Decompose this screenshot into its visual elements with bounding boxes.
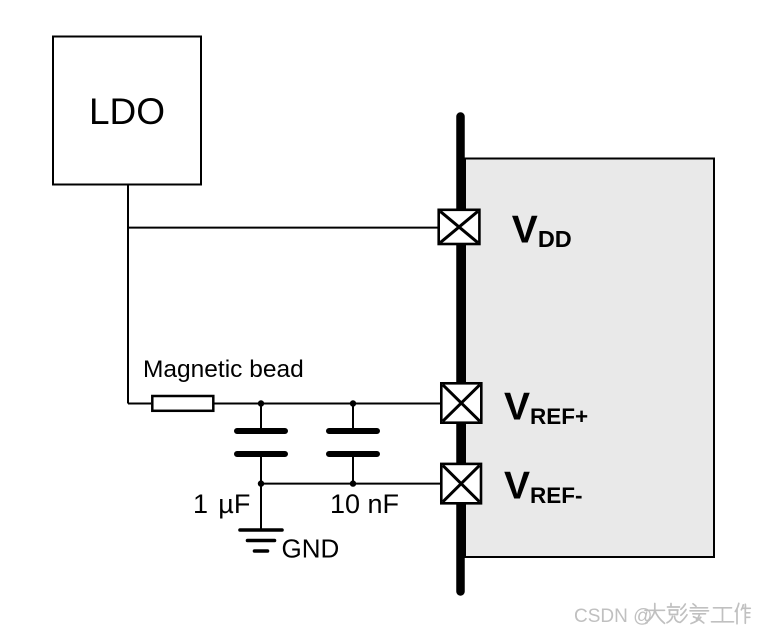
- junction dot B: [350, 400, 356, 406]
- svg-text:CSDN @: CSDN @: [574, 606, 652, 627]
- svg-text:LDO: LDO: [89, 91, 165, 132]
- char ai: [690, 604, 709, 624]
- wire bead to VREF+ pin: [214, 403, 442, 405]
- pin VDD (crossed square): [439, 210, 480, 244]
- junction dot D: [350, 480, 356, 486]
- LDO U1: [53, 37, 201, 185]
- svg-text:1: 1: [193, 489, 208, 519]
- IC body (grey block): [465, 159, 714, 558]
- char zuo: [735, 603, 750, 624]
- ferrite bead FB1: [152, 396, 213, 411]
- wire cap C2 top lead: [352, 404, 354, 430]
- capacitor C2 10nF plates: [329, 431, 377, 454]
- wire cap C1 top lead: [260, 404, 262, 430]
- svg-text:GND: GND: [282, 533, 340, 563]
- svg-text:10 nF: 10 nF: [330, 489, 399, 519]
- watermark CJK glyphs: [645, 603, 750, 624]
- IC edge bus (thick vertical line): [456, 117, 465, 592]
- wire bottom rail to VREF- pin: [261, 483, 442, 485]
- wire LDO output vertical: [127, 185, 129, 404]
- svg-text:µF: µF: [218, 489, 250, 519]
- watermark CSDN: [574, 606, 652, 627]
- svg-text:Magnetic bead: Magnetic bead: [143, 356, 304, 383]
- pin VREF+ (crossed square): [441, 383, 481, 422]
- capacitor C1 1uF plates: [237, 431, 285, 454]
- char gong: [712, 608, 734, 622]
- wire to VDD pin: [128, 227, 440, 229]
- char biao: [667, 604, 687, 623]
- ground: [240, 530, 282, 551]
- wire cap C2 bottom lead: [352, 456, 354, 484]
- junction dot C: [258, 480, 264, 486]
- wire to magnetic bead: [128, 403, 151, 405]
- junction dot A: [258, 400, 264, 406]
- char da: [645, 604, 665, 624]
- wire cap C1 bottom lead to ground rail: [260, 456, 262, 529]
- pin VREF- (crossed square): [441, 464, 481, 503]
